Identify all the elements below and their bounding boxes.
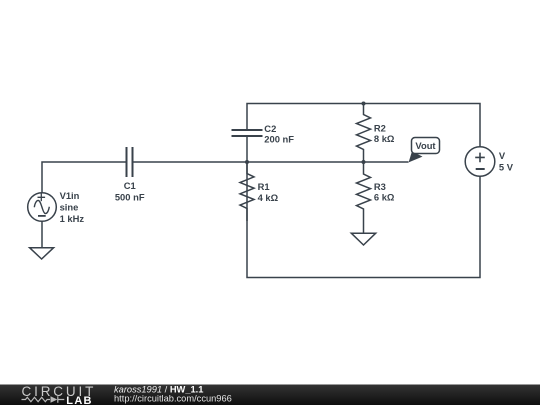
svg-text:6 kΩ: 6 kΩ — [374, 192, 395, 203]
resistor R2 — [357, 104, 371, 163]
footer logo resistor-diode line — [22, 396, 65, 402]
ground (V1in) — [30, 248, 54, 259]
svg-text:C2: C2 — [264, 123, 276, 134]
svg-text:R2: R2 — [374, 122, 386, 133]
svg-text:500 nF: 500 nF — [115, 192, 145, 203]
footer bar — [0, 385, 540, 405]
svg-text:http://circuitlab.com/ccun966: http://circuitlab.com/ccun966 — [114, 394, 232, 404]
node Vout flag — [409, 151, 423, 162]
svg-text:C1: C1 — [124, 180, 136, 191]
wire middle rail right (C1 to Vout tail) — [133, 161, 409, 163]
svg-text:R3: R3 — [374, 181, 386, 192]
node junction (C2/R1 at middle rail) — [245, 160, 249, 164]
wire bottom rail — [247, 162, 480, 278]
wire V1in to ground — [41, 221, 43, 247]
svg-text:200 nF: 200 nF — [264, 134, 294, 145]
svg-text:R1: R1 — [258, 181, 270, 192]
wire top rail — [246, 136, 248, 162]
svg-text:sine: sine — [60, 202, 79, 213]
wire middle rail left (V1in to C1) — [42, 162, 127, 193]
svg-text:8 kΩ: 8 kΩ — [374, 133, 395, 144]
resistor R1 — [240, 162, 254, 221]
voltage source V (5 V) — [465, 147, 495, 177]
svg-text:V: V — [499, 150, 506, 161]
svg-text:1 kHz: 1 kHz — [60, 213, 85, 224]
svg-text:LAB: LAB — [66, 395, 93, 405]
svg-text:V1in: V1in — [60, 190, 80, 201]
svg-text:4 kΩ: 4 kΩ — [258, 192, 279, 203]
capacitor C1 — [127, 147, 133, 177]
voltage source V1in — [28, 193, 57, 248]
ground (R3) — [351, 233, 375, 245]
resistor R3 — [357, 162, 371, 233]
node junction (R2 top rail) — [362, 102, 366, 106]
capacitor C2 — [232, 130, 263, 136]
svg-text:Vout: Vout — [415, 140, 435, 151]
node junction (R2/R3 middle rail) — [362, 160, 366, 164]
svg-text:5 V: 5 V — [499, 161, 514, 172]
